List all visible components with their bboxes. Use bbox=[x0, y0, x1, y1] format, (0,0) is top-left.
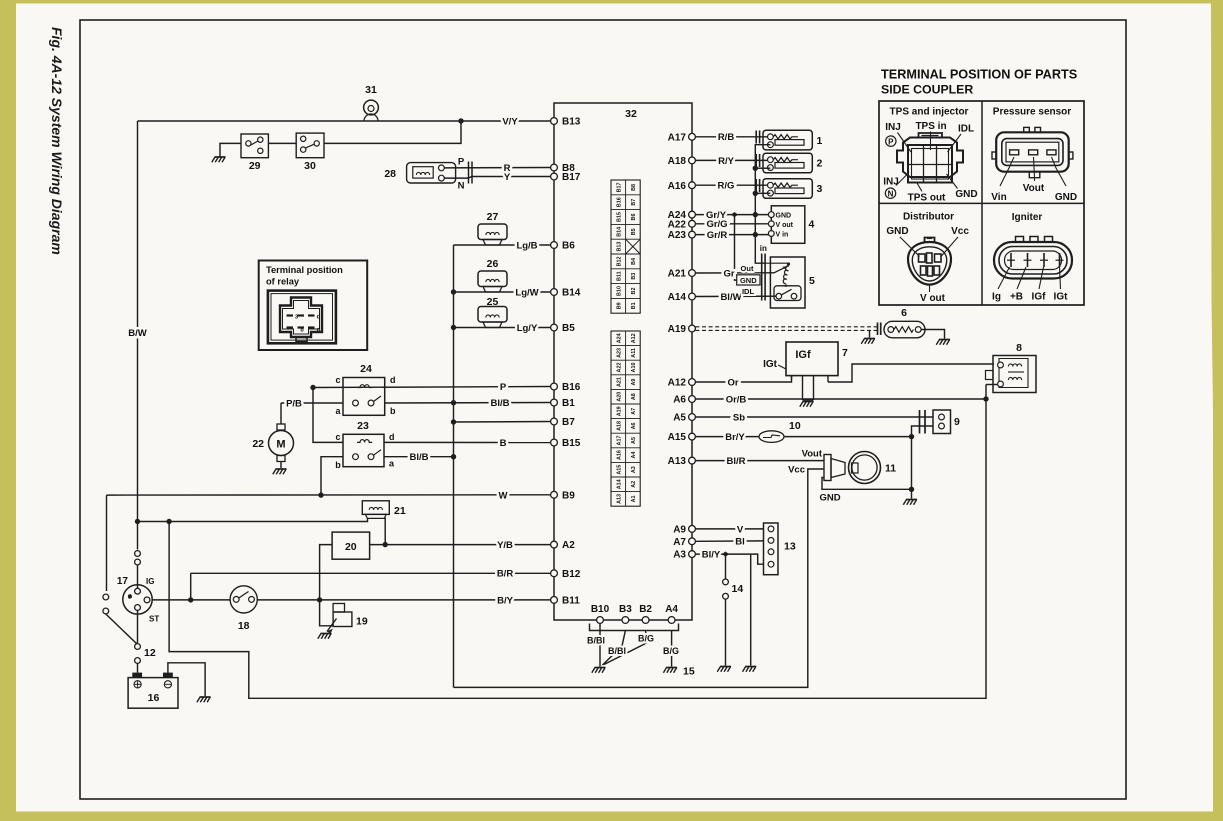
ground (B10/B3/B2) bbox=[595, 667, 606, 669]
svg-text:B16: B16 bbox=[616, 197, 622, 207]
svg-text:A16: A16 bbox=[668, 181, 687, 192]
wire Y/B (20 to A2) bbox=[370, 544, 551, 546]
svg-text:Lg/Y: Lg/Y bbox=[517, 323, 538, 334]
sensor ground strap bbox=[735, 215, 737, 281]
svg-text:Lg/W: Lg/W bbox=[515, 287, 538, 298]
TPS body 5 bbox=[770, 257, 805, 308]
svg-text:A15: A15 bbox=[616, 465, 622, 475]
wire left branch down bbox=[106, 495, 108, 591]
main relay 24 bbox=[343, 378, 385, 416]
svg-text:c: c bbox=[335, 375, 340, 385]
wire to 13 pin4 bbox=[751, 554, 764, 564]
VSV coil 25 bbox=[478, 307, 507, 323]
svg-text:A19: A19 bbox=[616, 406, 622, 416]
ECU connector box 32 bbox=[554, 103, 692, 620]
wire ST to 12 bbox=[137, 610, 139, 643]
svg-text:A17: A17 bbox=[668, 132, 687, 143]
wire Or (A12) bbox=[695, 376, 791, 382]
svg-text:B/W: B/W bbox=[128, 328, 147, 339]
svg-text:A19: A19 bbox=[668, 324, 687, 335]
svg-text:29: 29 bbox=[249, 160, 261, 172]
svg-text:Or/B: Or/B bbox=[726, 394, 747, 405]
svg-text:A9: A9 bbox=[631, 379, 637, 386]
ground (igniter) bbox=[803, 401, 814, 403]
terminal position of relay box bbox=[259, 261, 368, 351]
connector bars bbox=[755, 179, 757, 192]
svg-text:14: 14 bbox=[732, 583, 744, 595]
junction node bbox=[983, 396, 988, 401]
svg-text:P: P bbox=[888, 138, 894, 147]
lamp 31 bbox=[364, 100, 379, 115]
svg-text:B11: B11 bbox=[562, 596, 580, 607]
svg-text:A15: A15 bbox=[668, 432, 687, 443]
svg-text:IDL: IDL bbox=[958, 124, 974, 135]
svg-text:d: d bbox=[390, 375, 396, 385]
junction node bbox=[753, 212, 758, 217]
svg-text:Y: Y bbox=[504, 172, 511, 183]
wire 11 GND bbox=[822, 478, 912, 490]
wire P/B to relay24a bbox=[281, 402, 343, 404]
svg-text:A8: A8 bbox=[631, 393, 637, 400]
svg-text:B10: B10 bbox=[591, 604, 610, 615]
connector bars bbox=[755, 131, 757, 144]
svg-text:A21: A21 bbox=[616, 377, 622, 387]
svg-text:A12: A12 bbox=[668, 378, 687, 389]
svg-text:A4: A4 bbox=[665, 604, 678, 615]
svg-text:A13: A13 bbox=[616, 494, 622, 504]
svg-text:25: 25 bbox=[487, 296, 499, 308]
svg-text:10: 10 bbox=[789, 420, 801, 432]
ECU bottom pins bbox=[597, 617, 604, 624]
wire 13 ground drop bbox=[750, 554, 752, 665]
svg-text:B/R: B/R bbox=[497, 569, 514, 580]
svg-text:A4: A4 bbox=[631, 452, 637, 459]
svg-text:B16: B16 bbox=[562, 382, 581, 393]
svg-text:IGf: IGf bbox=[1032, 292, 1047, 303]
svg-text:A18: A18 bbox=[668, 156, 687, 167]
junction diamond bbox=[722, 552, 729, 557]
svg-text:Gr/G: Gr/G bbox=[706, 219, 727, 230]
svg-text:IGt: IGt bbox=[763, 359, 778, 370]
wire igniter out to 8 bbox=[828, 364, 994, 382]
svg-text:A14: A14 bbox=[668, 292, 687, 303]
connector 9 bbox=[933, 410, 951, 434]
svg-text:A22: A22 bbox=[616, 363, 622, 373]
junction node bbox=[188, 597, 193, 602]
svg-text:P/B: P/B bbox=[286, 398, 302, 409]
svg-text:b: b bbox=[390, 406, 396, 416]
junction node bbox=[135, 519, 140, 524]
connector 13 bbox=[764, 523, 779, 575]
svg-text:Distributor: Distributor bbox=[903, 212, 954, 223]
junction node bbox=[451, 325, 456, 330]
connector circles left branch bbox=[103, 594, 109, 600]
Q3 leader lines bbox=[900, 237, 920, 257]
svg-text:Igniter: Igniter bbox=[1012, 212, 1043, 223]
wire Bl (A7) bbox=[695, 540, 763, 542]
svg-text:B8: B8 bbox=[631, 184, 637, 191]
harness bracket bbox=[590, 624, 679, 631]
svg-text:A11: A11 bbox=[631, 348, 637, 358]
svg-text:4: 4 bbox=[809, 219, 815, 231]
svg-text:Fig. 4A-12 System Wiring Diag: Fig. 4A-12 System Wiring Diagram bbox=[49, 27, 65, 255]
svg-text:B9: B9 bbox=[562, 490, 575, 501]
TPS coupler drawing bbox=[897, 138, 963, 178]
svg-text:Bl/R: Bl/R bbox=[727, 456, 746, 467]
svg-text:IDL: IDL bbox=[742, 287, 755, 296]
wire B/Y (B11) bbox=[152, 599, 551, 601]
svg-text:B17: B17 bbox=[562, 172, 581, 183]
wire B2 ground bbox=[604, 631, 647, 665]
svg-text:SIDE COUPLER: SIDE COUPLER bbox=[881, 83, 973, 97]
VSV coil 26 bbox=[478, 271, 507, 287]
svg-text:28: 28 bbox=[384, 168, 396, 180]
svg-text:2: 2 bbox=[817, 158, 823, 170]
wire 12 to battery bbox=[137, 664, 139, 673]
svg-text:15: 15 bbox=[683, 666, 695, 678]
svg-text:B/G: B/G bbox=[663, 646, 679, 656]
svg-text:B14: B14 bbox=[562, 288, 581, 299]
svg-text:13: 13 bbox=[784, 541, 796, 553]
svg-text:23: 23 bbox=[357, 420, 369, 432]
svg-text:GND: GND bbox=[740, 276, 757, 285]
svg-text:A13: A13 bbox=[668, 456, 687, 467]
igniter 7 box bbox=[786, 342, 838, 376]
switch 18 bbox=[230, 586, 257, 613]
svg-text:A23: A23 bbox=[616, 348, 622, 358]
svg-text:B/G: B/G bbox=[638, 634, 654, 644]
svg-text:ST: ST bbox=[149, 615, 159, 624]
svg-text:IG: IG bbox=[146, 577, 154, 586]
junction node bbox=[451, 400, 456, 405]
injector resistor 1 bbox=[763, 130, 812, 150]
svg-text:30: 30 bbox=[304, 160, 316, 172]
wire relay23b down to W bbox=[321, 457, 343, 495]
svg-text:A22: A22 bbox=[668, 219, 687, 230]
svg-text:d: d bbox=[389, 432, 395, 442]
svg-text:24: 24 bbox=[360, 363, 372, 375]
igniter coupler bbox=[994, 242, 1072, 279]
svg-text:Terminal position: Terminal position bbox=[266, 265, 343, 275]
connector bars bbox=[755, 154, 757, 167]
ground (19) bbox=[321, 633, 332, 635]
battery 16 bbox=[128, 678, 178, 709]
junction node bbox=[166, 519, 171, 524]
relay 29 bbox=[241, 134, 268, 158]
svg-text:B5: B5 bbox=[562, 323, 575, 334]
svg-text:A6: A6 bbox=[673, 395, 686, 406]
relay box inner line bbox=[271, 294, 333, 341]
wire B10 ground bbox=[599, 623, 601, 666]
svg-text:B12: B12 bbox=[616, 256, 622, 266]
wire relay29-relay30 bbox=[268, 142, 296, 144]
wire 8 lower to +B bus bbox=[986, 384, 998, 386]
wire B (relay23 to B15) bbox=[384, 441, 551, 443]
wire 21 feed bbox=[138, 518, 368, 521]
label GND boxed bbox=[737, 275, 760, 285]
wire R/Y (A18) bbox=[695, 159, 767, 161]
svg-text:R/B: R/B bbox=[718, 132, 735, 143]
junction node bbox=[451, 419, 456, 424]
wire Or/B (A6) bbox=[695, 398, 986, 400]
svg-text:Vcc: Vcc bbox=[788, 464, 805, 475]
svg-text:B: B bbox=[500, 438, 507, 449]
wire B/W (main vertical) bbox=[137, 121, 139, 550]
connector bar 6 bbox=[877, 323, 879, 336]
junction node bbox=[383, 542, 388, 547]
svg-text:of relay: of relay bbox=[266, 277, 300, 287]
svg-text:A16: A16 bbox=[616, 450, 622, 460]
injector resistor 2 bbox=[763, 153, 812, 173]
svg-text:A20: A20 bbox=[616, 392, 622, 402]
svg-text:R/Y: R/Y bbox=[718, 156, 735, 167]
ECU B-pin table bbox=[611, 180, 640, 313]
wire V/Y (B13 feed) bbox=[138, 120, 551, 122]
svg-text:A2: A2 bbox=[631, 481, 637, 488]
wire W (B9) bbox=[107, 494, 551, 496]
svg-text:TPS out: TPS out bbox=[908, 193, 946, 204]
svg-text:B15: B15 bbox=[616, 212, 622, 222]
wire 6 to ground bbox=[921, 330, 944, 339]
wire Bl/B (relay23a) bbox=[384, 456, 454, 458]
svg-text:Vout: Vout bbox=[802, 449, 823, 460]
svg-text:A3: A3 bbox=[673, 550, 686, 561]
svg-text:V out: V out bbox=[776, 222, 794, 229]
svg-text:Gr: Gr bbox=[723, 268, 734, 279]
svg-text:W: W bbox=[499, 490, 508, 501]
svg-text:19: 19 bbox=[356, 616, 368, 628]
svg-text:7: 7 bbox=[842, 347, 848, 359]
ECU left pins bbox=[551, 118, 558, 125]
svg-text:P: P bbox=[458, 157, 465, 168]
svg-text:Vin: Vin bbox=[991, 192, 1006, 203]
starter solenoid 19 bbox=[320, 625, 334, 627]
svg-text:GND: GND bbox=[1055, 192, 1077, 203]
wire Gr/G (A22) bbox=[695, 223, 768, 225]
junction diamond bbox=[731, 212, 738, 217]
svg-text:INJ: INJ bbox=[883, 177, 899, 188]
svg-text:B13: B13 bbox=[562, 117, 581, 128]
svg-text:A7: A7 bbox=[631, 408, 637, 415]
wire 21 to Y/B bbox=[384, 518, 386, 545]
svg-text:A1: A1 bbox=[631, 495, 637, 502]
svg-text:TPS in: TPS in bbox=[915, 121, 946, 132]
svg-text:17: 17 bbox=[117, 576, 129, 587]
svg-text:1: 1 bbox=[817, 135, 823, 147]
VSV coil 27 bbox=[478, 224, 507, 240]
svg-text:A24: A24 bbox=[616, 333, 622, 343]
svg-text:IGf: IGf bbox=[795, 349, 811, 361]
svg-text:Bl/B: Bl/B bbox=[491, 398, 510, 409]
svg-text:B6: B6 bbox=[562, 241, 575, 252]
svg-text:Bl/B: Bl/B bbox=[410, 452, 429, 463]
svg-text:R/G: R/G bbox=[718, 181, 735, 192]
svg-text:B2: B2 bbox=[639, 604, 652, 615]
Q2 leader lines bbox=[1000, 157, 1014, 186]
svg-text:31: 31 bbox=[365, 84, 377, 96]
svg-text:26: 26 bbox=[487, 258, 499, 270]
bus tap r3 bbox=[755, 192, 770, 194]
wire Gr (A21) bbox=[695, 272, 774, 274]
wire Bl/R (A13) bbox=[695, 460, 824, 462]
shielded wire A19 bbox=[695, 326, 877, 328]
check connector 10 bbox=[759, 431, 784, 443]
svg-text:B14: B14 bbox=[616, 227, 622, 237]
wire Sb (A5) bbox=[695, 416, 933, 418]
svg-text:Vout: Vout bbox=[1023, 183, 1045, 194]
svg-text:B13: B13 bbox=[616, 242, 622, 252]
svg-text:Ig: Ig bbox=[992, 292, 1001, 303]
wire B/R tap bbox=[190, 573, 192, 600]
ground (A4) bbox=[666, 667, 677, 669]
svg-text:B/Bl: B/Bl bbox=[587, 636, 605, 646]
svg-text:B3: B3 bbox=[619, 604, 632, 615]
wire V (A9) bbox=[695, 528, 763, 530]
svg-text:TPS and injector: TPS and injector bbox=[890, 107, 969, 118]
ground (relay 29) bbox=[215, 156, 226, 158]
svg-text:V: V bbox=[737, 524, 744, 535]
svg-text:GND: GND bbox=[955, 189, 977, 200]
svg-text:11: 11 bbox=[885, 463, 896, 475]
junction node bbox=[318, 492, 323, 497]
wire 14 to ground bbox=[725, 599, 727, 665]
svg-text:M: M bbox=[276, 439, 285, 451]
wire Lg/W (26 to B14) bbox=[454, 291, 551, 293]
svg-text:Out: Out bbox=[741, 264, 754, 273]
svg-text:Bl: Bl bbox=[735, 537, 745, 548]
connector circles 12 bbox=[135, 644, 141, 650]
relay coil 21 bbox=[362, 501, 389, 515]
junction node bbox=[909, 487, 914, 492]
wire P/B down to motor bbox=[280, 403, 282, 424]
svg-text:c: c bbox=[335, 432, 340, 442]
svg-text:22: 22 bbox=[252, 438, 264, 450]
svg-text:Gr/R: Gr/R bbox=[707, 230, 728, 241]
svg-text:V in: V in bbox=[776, 232, 789, 239]
svg-text:Bl/Y: Bl/Y bbox=[702, 550, 721, 561]
coupler chart box bbox=[879, 101, 1084, 305]
svg-text:GND: GND bbox=[776, 213, 792, 220]
svg-text:A7: A7 bbox=[673, 537, 686, 548]
svg-text:21: 21 bbox=[394, 505, 406, 517]
connector 4 box bbox=[771, 206, 805, 244]
svg-text:V out: V out bbox=[920, 293, 946, 304]
wire 28 to B17 bbox=[444, 177, 550, 179]
svg-text:3: 3 bbox=[817, 183, 823, 195]
ECU right pins bbox=[689, 133, 696, 140]
noise suppressor 8 bbox=[993, 356, 1036, 393]
wire R/B (A17) bbox=[695, 136, 767, 138]
svg-text:V/Y: V/Y bbox=[502, 116, 518, 127]
relay coupler drawing bbox=[280, 298, 322, 338]
ignition switch 17 bbox=[123, 585, 152, 614]
svg-text:A17: A17 bbox=[616, 436, 622, 446]
svg-text:B5: B5 bbox=[631, 228, 637, 235]
svg-text:+B: +B bbox=[1010, 292, 1023, 303]
wire Br/Y (A15) bbox=[695, 426, 933, 437]
svg-text:B/Y: B/Y bbox=[497, 595, 514, 606]
svg-text:5: 5 bbox=[809, 275, 815, 287]
svg-text:A12: A12 bbox=[631, 333, 637, 343]
svg-text:A10: A10 bbox=[631, 363, 637, 373]
distributor coupler bbox=[925, 238, 935, 244]
wire Vcc bbox=[808, 468, 824, 470]
wire B7 feed bbox=[454, 421, 551, 424]
junction node bbox=[753, 166, 758, 171]
svg-text:b: b bbox=[335, 460, 341, 470]
svg-text:32: 32 bbox=[625, 108, 637, 120]
wire Gr/Y (A24) bbox=[695, 214, 768, 216]
junction node bbox=[909, 434, 914, 439]
svg-text:B15: B15 bbox=[562, 438, 581, 449]
svg-text:B6: B6 bbox=[631, 214, 637, 221]
Q4 leader lines bbox=[998, 267, 1010, 289]
svg-text:Lg/B: Lg/B bbox=[516, 240, 537, 251]
svg-text:B1: B1 bbox=[631, 302, 637, 309]
Q1 leader lines bbox=[898, 133, 912, 153]
wire ground to relay29 bbox=[220, 143, 241, 157]
svg-text:B/Bl: B/Bl bbox=[608, 646, 626, 656]
component 20 box bbox=[332, 532, 370, 559]
svg-text:B3: B3 bbox=[631, 273, 637, 280]
svg-text:A9: A9 bbox=[673, 525, 686, 536]
wire P (B16) bbox=[313, 387, 551, 388]
wire B3 ground bbox=[603, 631, 626, 666]
svg-text:A5: A5 bbox=[631, 437, 637, 444]
junction node bbox=[317, 597, 322, 602]
junction node bbox=[753, 232, 758, 237]
svg-text:12: 12 bbox=[144, 647, 156, 659]
svg-text:N: N bbox=[458, 181, 465, 192]
svg-text:N: N bbox=[888, 190, 894, 199]
svg-text:B2: B2 bbox=[631, 288, 637, 295]
junction node bbox=[753, 191, 758, 196]
+B bus bbox=[169, 385, 986, 699]
svg-text:Bl/W: Bl/W bbox=[720, 292, 741, 303]
wire 20 left down to 19 bbox=[320, 545, 334, 626]
wire Gr/R (A23) bbox=[695, 234, 768, 236]
svg-text:B10: B10 bbox=[616, 286, 622, 296]
junction node bbox=[458, 118, 463, 123]
wire Bl/W (A14) bbox=[695, 295, 776, 297]
TPS in drop bbox=[754, 235, 756, 262]
ground (6) bbox=[939, 339, 950, 341]
wire relay coil link c-c bbox=[313, 388, 343, 443]
connector bars 9 bbox=[919, 410, 921, 434]
pressure sensor coupler bbox=[996, 132, 1068, 171]
svg-text:A21: A21 bbox=[668, 269, 687, 280]
relay 30 bbox=[296, 133, 324, 158]
wire A4 ground bbox=[671, 631, 673, 667]
ground (shield) bbox=[864, 338, 875, 340]
ECU A-pin table bbox=[611, 331, 640, 506]
svg-text:in: in bbox=[760, 244, 767, 253]
svg-text:A14: A14 bbox=[616, 479, 622, 489]
wire battery minus bbox=[168, 663, 205, 696]
svg-text:B17: B17 bbox=[616, 182, 622, 192]
injector resistor 3 bbox=[763, 179, 812, 199]
relay 23 bbox=[343, 434, 384, 466]
svg-text:B4: B4 bbox=[631, 258, 637, 265]
svg-text:6: 6 bbox=[901, 307, 907, 319]
bus tap r2 bbox=[755, 167, 770, 169]
wire 28 to B8 bbox=[444, 167, 550, 169]
inner relay box bbox=[268, 291, 336, 344]
svg-text:8: 8 bbox=[1016, 342, 1022, 354]
svg-text:20: 20 bbox=[345, 541, 357, 553]
svg-text:3: 3 bbox=[295, 314, 298, 320]
svg-text:A23: A23 bbox=[668, 230, 687, 241]
